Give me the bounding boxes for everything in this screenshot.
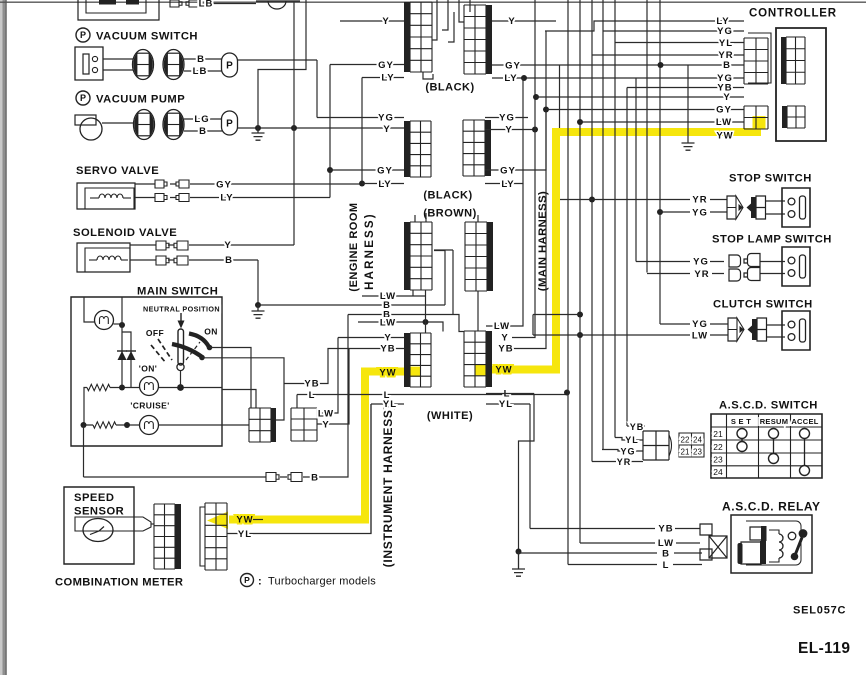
junction ON row pivot [177,384,184,391]
stop switch box [782,188,810,227]
wire P2 output Y net [238,127,405,129]
svg-text:SEL057C: SEL057C [793,605,846,617]
brown connector top stubs [415,213,478,222]
wire relay L [568,564,702,566]
wire riser x627 YB [626,88,628,427]
yellow highlight wire white connector to controller [480,117,757,370]
wire vertical P1 to YG row [316,60,318,118]
svg-text:Y: Y [382,16,389,27]
wire LY controller row with jog [545,21,744,31]
ground controller B [682,143,695,150]
wire controller row LW [580,121,744,123]
svg-text:Y: Y [224,240,231,251]
svg-text:RESUM: RESUM [760,417,789,426]
svg-text:B: B [197,54,205,65]
svg-text:Y: Y [505,125,512,136]
relay outside connector [700,524,712,560]
svg-text:L: L [663,560,670,571]
wire riser x568 L to relay [567,0,569,565]
wire stop lamp YG [636,261,785,263]
svg-text:Y: Y [384,333,391,344]
vacuum switch body [75,47,103,80]
svg-text:22: 22 [681,436,690,445]
junction GY riser mid block [327,167,333,173]
wire conn2 Y out [317,349,349,425]
switch arc contact lower [172,344,202,357]
junction riser x546 top [543,107,549,113]
svg-text:STOP SWITCH: STOP SWITCH [729,173,812,185]
svg-text:ACCEL: ACCEL [791,417,818,426]
SET contacts [737,429,747,439]
resistor R1 [87,384,110,390]
wire vacuum switch to connectors [103,59,133,70]
controller inner grid lower [787,106,805,128]
svg-text:LY: LY [220,193,233,204]
relay internal plugs [750,527,762,540]
svg-text:YG: YG [692,319,708,330]
plug pair solenoid Y [156,241,169,250]
lamp CRUISE indicator [140,416,159,435]
wire vacuum pump to connectors [102,122,134,124]
svg-text:21: 21 [681,448,690,457]
wire stop switch YG [660,212,785,214]
connector block white right [464,331,486,387]
svg-text:B: B [662,549,670,560]
svg-text:YL: YL [499,399,513,410]
wire servo to plugs row2 [135,197,176,199]
svg-text:YG: YG [692,208,708,219]
wire solenoid Y to riser [189,128,294,245]
svg-text:P: P [226,61,233,72]
wire B to P oval pump [184,130,222,132]
svg-text:CLUTCH SWITCH: CLUTCH SWITCH [713,299,813,311]
svg-text:ON: ON [204,327,218,337]
junction LY riser mid block [359,181,365,187]
wire controller row YB [627,87,744,89]
connector block engine room top right [464,5,486,74]
svg-text:NEUTRAL POSITION: NEUTRAL POSITION [143,305,220,314]
svg-text:S E T: S E T [731,417,751,426]
ground solenoid B [252,305,265,318]
svg-text:B: B [723,60,731,71]
svg-text:P: P [80,93,86,103]
RESUM contacts [769,429,779,439]
plug stop lamp row2 [729,269,741,281]
wire LW row into brown bottoms [362,290,425,296]
legend P circle turbocharger [241,574,254,587]
junction x592 stop YR [589,197,595,203]
wire GY row bottom mid-left [330,169,404,171]
svg-text:GY: GY [505,61,521,72]
wire riser x603 YG [602,0,604,450]
svg-text:GY: GY [378,60,394,71]
wire controller row YG1 [603,30,744,32]
svg-text:YR: YR [694,269,709,280]
wire pivot down to ON row [180,371,182,388]
junction x580 y314 [577,312,583,318]
switch pivot circle [177,363,184,370]
svg-text:A.S.C.D. RELAY: A.S.C.D. RELAY [722,500,821,514]
svg-text:Y: Y [383,124,390,135]
junction ground node bottom [516,549,522,555]
wire arc2 exit to conn riser [202,358,284,420]
wire LW row y322 [358,322,443,332]
svg-text:SPEED: SPEED [74,492,114,504]
ground below P2 node [252,128,265,140]
wire riser x660 stop clutch YG [659,0,661,324]
svg-text:SOLENOID VALVE: SOLENOID VALVE [73,227,177,239]
ASCD pin number box [679,433,704,457]
servo valve body with coil [77,183,135,209]
svg-text:LY: LY [504,73,517,84]
svg-text::: : [258,576,263,588]
junction LY row riser [521,75,527,81]
junction x580 LW row [577,119,583,125]
wire servo LY to corner [190,197,330,199]
wire GY B long row y65 [492,64,719,66]
svg-text:LW: LW [692,331,708,342]
P oval vacuum pump [222,111,238,135]
combination meter connector 2 housing [200,507,205,566]
wire stop switch YR [560,200,785,202]
connector block engine room top left [410,2,432,72]
controller connector upper [744,38,768,84]
relay contact [788,532,796,540]
clutch switch box [782,311,810,350]
controller box [776,28,826,141]
plug stop lamp row1 [729,255,741,267]
ACCEL contacts [800,429,810,439]
svg-text:GY: GY [377,166,393,177]
svg-text:L: L [309,390,316,401]
wire controller row YL [615,42,744,44]
svg-text:P: P [226,119,233,130]
wire riser x647 [646,0,648,273]
svg-text:(ENGINE ROOM: (ENGINE ROOM [348,202,360,291]
wire relay YB [530,528,700,530]
wire solenoid row1 [130,244,174,246]
wire L net long row [297,394,567,396]
svg-text:STOP LAMP SWITCH: STOP LAMP SWITCH [712,234,832,246]
svg-text:YG: YG [620,447,635,457]
svg-text:YL: YL [625,435,639,445]
stop lamp switch box [782,247,810,286]
connector block engine room mid right [463,120,485,176]
wire lamp1 left to box top [84,297,95,322]
relay coil [779,534,783,558]
switch lever shaft [178,329,184,365]
wire riser x580 LW controller to relay LW [579,0,581,543]
svg-text:22: 22 [713,442,723,452]
svg-text:YB: YB [630,422,645,432]
svg-text:CONTROLLER: CONTROLLER [749,8,837,20]
wire relay B [519,552,703,554]
svg-text:YL: YL [383,399,397,410]
wire LY row bottom mid-left [362,183,404,185]
junction x660 stop YG [657,209,663,215]
wire LY right mid bottom row [485,78,523,184]
wire B row y305 riser from brown [434,251,445,306]
junction solenoid Y tap [291,125,297,131]
svg-text:GY: GY [716,105,732,116]
wire B row y314 [348,250,464,332]
wire P1 output to node [238,59,318,61]
yellow cell white left connector [411,367,421,377]
lamp ON indicator [140,377,159,396]
svg-text:LW: LW [494,321,510,332]
svg-text:YB: YB [658,524,673,535]
wire vertical LY riser x362 [361,78,363,185]
wire riser x636 YG2 [635,78,637,262]
wire ASCD YB [627,425,645,427]
wire LG to P oval [184,118,222,120]
junction riser x535 top [533,94,539,100]
svg-text:YW: YW [716,131,733,142]
wire B drop from cruise node [83,425,85,477]
cut-off component box top left [78,0,159,20]
svg-text:21: 21 [713,429,723,439]
main switch box [71,297,222,446]
connector bullet pair vacuum switch [133,50,154,80]
svg-text:P: P [244,575,250,585]
wire YB net from conn1 [284,349,404,384]
wire LY top row into top-left block [362,77,404,79]
plug pair servo GY [155,180,167,188]
wire controller row YR [592,54,744,56]
diode D2 [127,351,136,360]
svg-text:YB: YB [498,344,513,355]
svg-text:(INSTRUMENT HARNESS): (INSTRUMENT HARNESS) [381,405,395,568]
junction LW brown drop [423,319,429,325]
yellow cell controller connector [753,116,766,129]
combination meter connector 1 [154,504,175,569]
wire Y row into white left [338,337,404,339]
wire controller row YG2 [719,77,744,79]
vacuum pump body [75,115,96,125]
wire brown bottom pin to white top [425,290,427,333]
wire arc1 exit to conn riser [210,348,252,409]
svg-text:24: 24 [693,436,702,445]
connector block brown left [410,222,432,290]
combination meter connector 2 [205,503,227,570]
wire YG right mid row [485,117,528,119]
wire riser x592 YR [591,0,593,462]
svg-text:YL: YL [719,38,733,49]
junction Y row riser [532,127,538,133]
wire vertical GY riser x330 [329,65,331,198]
svg-text:(BLACK): (BLACK) [423,190,472,202]
ASCD connector plug 2x2 [643,431,669,460]
wire GY top row into top-left block [330,64,404,66]
junction CRUISE left [81,422,87,428]
cut-off plug pair top [170,0,182,7]
svg-text:YB: YB [304,379,319,390]
svg-text:(WHITE): (WHITE) [427,410,473,422]
wire R1 left drop [84,388,87,426]
neutral position arrow [180,313,182,321]
plug pair solenoid B [156,256,169,265]
svg-text:LY: LY [378,179,391,190]
speed sensor box [64,487,134,564]
svg-text:(BLACK): (BLACK) [425,82,474,94]
svg-text:LB: LB [193,66,208,77]
solenoid valve body with coil [77,243,130,272]
main switch connector 2 [291,408,317,441]
wire ON row exit to conn1 [222,390,256,409]
svg-text:'CRUISE': 'CRUISE' [130,401,169,411]
svg-text:(MAIN HARNESS): (MAIN HARNESS) [537,191,549,291]
svg-text:LY: LY [381,73,394,84]
junction ON row left [119,385,125,391]
wire servo GY to junction [190,183,362,185]
junction x580 y335 [577,332,583,338]
svg-text:'ON': 'ON' [139,364,157,374]
svg-text:VACUUM PUMP: VACUUM PUMP [96,94,185,106]
junction x660 B row [658,62,664,68]
junction CRUISE mid [124,422,130,428]
wire node up to box top x122 [121,297,123,325]
wire node up from P1 jog [258,0,306,128]
connector block brown right [465,222,487,291]
svg-text:YL: YL [238,529,252,540]
junction P2 ground [255,125,261,131]
wire ASCD YR [592,461,643,463]
label VACUUM PUMP with P circle [76,91,90,105]
svg-text:MAIN SWITCH: MAIN SWITCH [137,286,218,298]
wire riser x294 to top edge [293,2,295,128]
svg-text:LW: LW [658,538,674,549]
svg-text:P: P [80,30,86,40]
switch dashed OFF position [158,339,172,360]
svg-text:LW: LW [318,409,334,420]
svg-text:VACUUM SWITCH: VACUUM SWITCH [96,31,198,43]
cut-off semicircle component top [268,1,286,9]
svg-text:COMBINATION METER: COMBINATION METER [55,577,183,589]
svg-text:LB: LB [199,0,214,10]
controller connector lower [744,106,768,129]
wire riser x523 to white-right LW [512,184,523,327]
wire CRUISE row [84,424,249,426]
wire ASCD YG [602,450,643,452]
wire row y314 white LW link [533,315,580,336]
wire controller row Y [536,96,744,98]
svg-text:B: B [225,255,233,266]
svg-text:B: B [199,126,207,137]
svg-text:EL-119: EL-119 [798,640,850,657]
wire solenoid B to ground node [189,260,258,305]
wire riser x535 to white-right Y [512,0,535,338]
svg-text:HARNESS): HARNESS) [364,212,376,290]
wire Y top row into top-left block [340,20,404,22]
wire Y right mid row [485,129,535,131]
wire YL riser beside yellow [370,404,372,534]
main switch connector 1 [249,408,271,442]
wire GY right mid bottom row [485,110,546,171]
switch arc contact ON [189,334,209,348]
svg-text:23: 23 [693,448,702,457]
wire YW black on yellow stub [253,519,263,521]
svg-text:YB: YB [380,344,395,355]
diode D1 [118,351,127,360]
svg-text:YG: YG [499,113,515,124]
wire LB to P oval [184,70,222,72]
ground bottom center [512,552,525,577]
svg-text:(BROWN): (BROWN) [423,208,477,220]
plug pair clutch switch [728,318,737,341]
plug pair servo LY [155,194,167,202]
wire conn2 LW out [317,338,338,414]
svg-text:GY: GY [500,166,516,177]
wire stop lamp YR [647,273,785,275]
relay inner wire loop [746,521,801,565]
wire LW white right row [486,325,512,327]
relay box [731,515,812,573]
wire relay LW [580,542,700,544]
svg-text:LY: LY [501,179,514,190]
wire YL white right riser to relay YB [486,404,530,529]
svg-text:YG: YG [378,113,394,124]
connector block engine room mid left [410,121,431,177]
svg-text:SERVO VALVE: SERVO VALVE [76,165,159,177]
P oval vacuum switch [222,53,238,77]
svg-text:SENSOR: SENSOR [74,506,124,518]
wire diode branch verticals [122,325,131,388]
wire ON lamp row [110,387,222,389]
wire riser x546 to white-right YB [512,31,546,349]
wire ASCD YL [615,438,643,441]
svg-text:Turbocharger models: Turbocharger models [268,576,376,588]
page scan edge top [0,1,866,3]
wire LB top [198,3,256,5]
page scan edge left [0,0,3,675]
junction L net relay riser [564,390,570,396]
ASCD switch table [711,414,822,478]
svg-text:LW: LW [716,117,732,128]
wire YL row white left [371,403,404,405]
controller inner grid upper [786,37,805,84]
wire brown right bottom to white right top [477,291,479,331]
junction solenoid B ground [255,302,261,308]
svg-text:LW: LW [380,318,396,329]
wires between top connector pair [423,0,470,79]
speed sensor element [75,517,151,531]
wire B to P oval [184,58,222,60]
yellow highlight wire meter to white connector [229,372,416,520]
connector block white left [410,333,431,387]
wire YL from meter [227,404,371,534]
svg-text:LG: LG [194,114,209,125]
wire solenoid row2 [130,259,174,261]
wire servo to plugs row1 [135,183,176,185]
resistor R2 [93,422,116,428]
svg-text:YG: YG [693,257,709,268]
wire Y top row [492,20,556,22]
yellow cell white right connector [475,365,485,376]
wire L white right drop to ground node [486,394,534,552]
plug pair stop switch [727,196,736,219]
wire clutch YG [660,324,785,325]
switch dashed ON position [186,342,200,360]
wire sensor to meter connector [151,523,154,525]
wire riser x615 YL [614,0,616,438]
wire drop x559 at yellow corner [559,65,561,128]
svg-text:YR: YR [617,457,632,467]
wire conn2 L riser [296,395,298,409]
wire clutch LW [533,335,785,337]
wire LY YG long row y78 [492,77,719,79]
svg-text:Y: Y [322,420,329,431]
lamp neutral indicator [95,311,114,330]
